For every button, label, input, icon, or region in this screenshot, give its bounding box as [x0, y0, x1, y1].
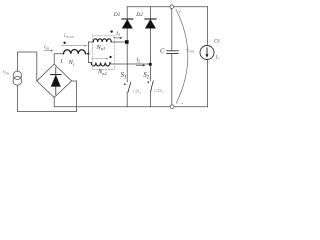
- vertical bus: [87, 42, 89, 63]
- diode D1: [122, 19, 133, 28]
- svg-text:Na1: Na1: [96, 44, 106, 51]
- svg-text:GDb: GDb: [154, 88, 163, 94]
- diode D2 branch: [149, 7, 151, 107]
- output node circle bottom: [170, 105, 174, 109]
- capacitor C branch: [171, 8, 173, 104]
- svg-text:vout: vout: [186, 47, 194, 53]
- current arrow over Na2: [92, 58, 109, 60]
- current source CS: [200, 46, 214, 60]
- wire Na1 branch to D1/S1 junction: [88, 41, 127, 43]
- polarity dot Nc: [63, 42, 65, 44]
- svg-text:i2: i2: [137, 57, 141, 63]
- arrow i2: [136, 64, 145, 66]
- svg-text:Lboost: Lboost: [63, 34, 76, 39]
- svg-text:Io: Io: [215, 55, 220, 61]
- svg-text:1: 1: [60, 59, 63, 65]
- junction square i1 node: [125, 40, 129, 44]
- switch S1: [124, 82, 131, 92]
- wire Na2 branch to D2/S2 junction: [88, 63, 150, 65]
- arrow i1: [114, 37, 123, 39]
- inductor Nc (L_boost winding): [64, 50, 86, 54]
- wire source bottom to bridge right vertex: [17, 81, 76, 112]
- right edge: [207, 7, 209, 107]
- arrow i_in: [44, 50, 53, 52]
- svg-text:D1: D1: [113, 12, 121, 18]
- diode D2: [145, 19, 156, 28]
- wire Nc to node: [86, 53, 89, 55]
- svg-text:D2: D2: [135, 12, 143, 18]
- wire bridge top vertex to Nc: [54, 54, 63, 64]
- svg-text:GDa: GDa: [133, 88, 142, 94]
- svg-text:-: -: [181, 101, 183, 107]
- svg-text:CS: CS: [214, 40, 220, 45]
- bridge rectifier diamond: [37, 64, 72, 97]
- svg-text:Nc: Nc: [68, 59, 75, 66]
- polarity dot Na2: [109, 56, 111, 58]
- capacitor C plates: [167, 51, 178, 54]
- current arrow over Nc: [62, 45, 88, 47]
- svg-text:Na2: Na2: [97, 69, 107, 76]
- svg-text:S2: S2: [143, 72, 149, 81]
- output node circle top: [170, 5, 174, 9]
- switch S2: [147, 81, 153, 91]
- v_out arc: [176, 10, 188, 103]
- coupled inductor dashed box: [93, 36, 115, 70]
- svg-text:S1: S1: [121, 72, 127, 81]
- svg-text:+: +: [178, 10, 182, 16]
- polarity dot Na1: [110, 30, 112, 32]
- AC source v_in: [13, 71, 21, 79]
- junction square i2 node: [149, 63, 152, 66]
- top rail: [127, 6, 207, 8]
- bottom rail: [54, 98, 207, 107]
- junction node: [87, 52, 89, 54]
- wire source top to bridge left vertex: [17, 52, 36, 81]
- svg-text:iin: iin: [44, 44, 49, 50]
- diode D1 branch: [126, 7, 128, 107]
- bridge diode: [51, 67, 61, 95]
- svg-text:C: C: [160, 48, 165, 55]
- winding Na2: [91, 63, 110, 67]
- svg-text:vin: vin: [3, 69, 9, 75]
- svg-text:i1: i1: [116, 31, 120, 37]
- winding Na1: [93, 39, 111, 42]
